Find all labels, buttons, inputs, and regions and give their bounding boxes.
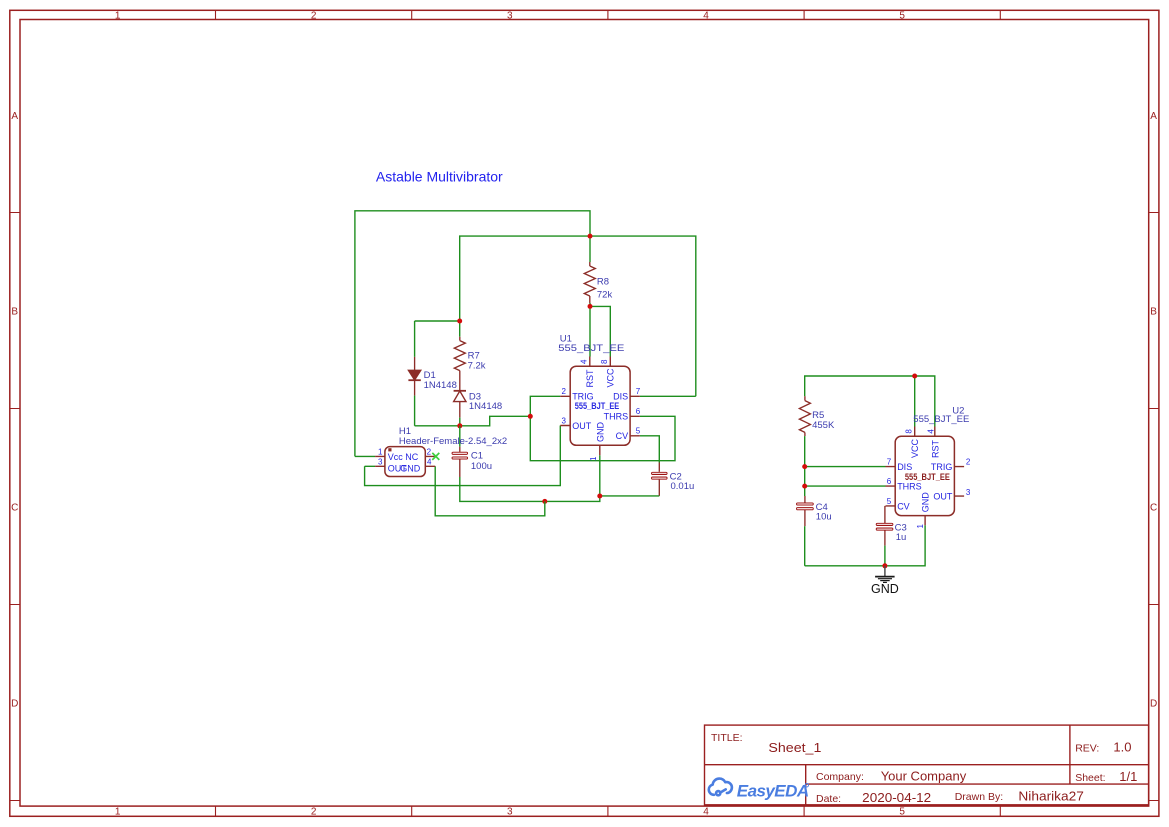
no-connect flag H1 pin2: [432, 453, 439, 460]
wire THRS U2: [805, 485, 886, 487]
wire CV to C2: [640, 436, 659, 463]
wire C1 top: [459, 426, 461, 447]
capacitor C1: [459, 447, 461, 477]
svg-text:0.01u: 0.01u: [671, 481, 695, 492]
svg-text:OUT: OUT: [572, 421, 592, 431]
svg-text:VCC: VCC: [606, 368, 616, 388]
svg-text:RST: RST: [585, 369, 595, 388]
svg-text:5: 5: [887, 497, 892, 506]
svg-text:1: 1: [378, 448, 383, 457]
svg-text:4: 4: [927, 429, 936, 434]
svg-text:8: 8: [904, 429, 913, 434]
svg-text:2: 2: [562, 387, 567, 396]
junction node R7 top: [457, 319, 462, 324]
svg-text:3: 3: [966, 488, 971, 497]
junction node B: [542, 499, 547, 504]
svg-text:GND: GND: [400, 464, 421, 474]
header H1: [375, 447, 435, 477]
svg-text:4: 4: [427, 458, 432, 467]
svg-text:CV: CV: [616, 431, 629, 441]
svg-text:3: 3: [378, 458, 383, 467]
wire DIS: [640, 395, 696, 397]
wire TRIG node: [530, 396, 675, 460]
ground GND symbol: [875, 566, 895, 583]
svg-text:555_BJT_EE: 555_BJT_EE: [913, 414, 969, 425]
svg-text:2: 2: [427, 448, 432, 457]
svg-text:1/1: 1/1: [1119, 769, 1137, 784]
svg-text:2: 2: [311, 807, 317, 818]
diode D1: [408, 357, 420, 396]
svg-text:6: 6: [887, 477, 892, 486]
svg-text:REV:: REV:: [1075, 743, 1099, 755]
svg-text:1u: 1u: [896, 532, 907, 543]
svg-text:Niharika27: Niharika27: [1018, 788, 1084, 803]
junction node U2 VCC: [912, 374, 917, 379]
svg-text:THRS: THRS: [897, 482, 922, 492]
svg-text:C1: C1: [471, 451, 483, 462]
svg-text:A: A: [1150, 111, 1157, 122]
svg-text:6: 6: [636, 407, 641, 416]
svg-text:1.0: 1.0: [1113, 740, 1131, 755]
resistor R5: [799, 396, 810, 436]
wire net second rail: [460, 236, 696, 396]
wire C2 bottom to GND node: [600, 495, 660, 497]
svg-text:1N4148: 1N4148: [469, 401, 502, 412]
svg-text:GND: GND: [871, 582, 899, 596]
svg-text:TITLE:: TITLE:: [711, 732, 743, 744]
svg-text:Company:: Company:: [816, 771, 864, 783]
svg-text:B: B: [1150, 307, 1157, 318]
svg-text:555_BJT_EE: 555_BJT_EE: [575, 401, 620, 411]
svg-text:7: 7: [887, 458, 892, 467]
svg-text:4: 4: [703, 807, 709, 818]
junction node THRS: [802, 484, 807, 489]
wire bottom rail right: [805, 525, 925, 566]
svg-text:RST: RST: [930, 439, 940, 458]
IC U2 555_BJT_EE: [886, 427, 965, 526]
svg-text:5: 5: [899, 807, 905, 818]
svg-text:8: 8: [600, 359, 609, 364]
svg-text:3: 3: [507, 807, 513, 818]
svg-text:Drawn By:: Drawn By:: [955, 791, 1003, 803]
svg-text:D: D: [11, 699, 18, 710]
svg-text:72k: 72k: [597, 290, 613, 301]
wire R7/D1 top branch: [415, 321, 460, 357]
wire C4 bottom: [804, 526, 806, 566]
svg-text:GND: GND: [921, 492, 931, 513]
wire H1 pin1: [355, 455, 375, 457]
wire D3 bottom node: [415, 416, 531, 426]
svg-text:10u: 10u: [816, 512, 832, 523]
capacitor C3: [884, 506, 886, 546]
resistor R7: [454, 337, 465, 390]
svg-text:5: 5: [636, 427, 641, 436]
svg-text:100u: 100u: [471, 461, 492, 472]
svg-text:7: 7: [636, 387, 641, 396]
svg-text:555_BJT_EE: 555_BJT_EE: [558, 343, 624, 354]
svg-text:2: 2: [311, 10, 317, 21]
svg-text:VCC: VCC: [910, 438, 920, 458]
H1 pin 1 polarity mark: [388, 448, 391, 451]
junction node DIS: [802, 464, 807, 469]
svg-text:4: 4: [703, 10, 709, 21]
svg-text:Header-Female-2.54_2x2: Header-Female-2.54_2x2: [399, 436, 507, 447]
svg-text:TRIG: TRIG: [931, 462, 953, 472]
svg-text:Astable Multivibrator: Astable Multivibrator: [376, 169, 503, 185]
svg-text:D: D: [1150, 699, 1157, 710]
svg-text:DIS: DIS: [897, 462, 912, 472]
junction node top rail: [588, 234, 593, 239]
capacitor C4: [804, 496, 806, 526]
svg-text:1: 1: [589, 456, 598, 461]
svg-text:A: A: [11, 111, 18, 122]
wire left rail down: [804, 436, 806, 496]
wire D1 bottom: [414, 396, 416, 426]
svg-text:THRS: THRS: [604, 412, 629, 422]
svg-text:CV: CV: [897, 501, 910, 511]
svg-text:Date:: Date:: [816, 793, 841, 805]
svg-text:C: C: [11, 503, 18, 514]
diode D3: [454, 391, 466, 418]
svg-text:455K: 455K: [812, 420, 835, 431]
svg-text:B: B: [11, 307, 18, 318]
svg-text:OUT: OUT: [933, 492, 953, 502]
svg-text:Sheet:: Sheet:: [1075, 772, 1105, 784]
svg-text:1: 1: [115, 807, 121, 818]
capacitor C2: [658, 463, 660, 496]
junction node A GND: [597, 494, 602, 499]
svg-text:1N4148: 1N4148: [424, 380, 457, 391]
wire H1 pin3 to U1 OUT: [365, 426, 561, 486]
op-amp/IC U1 555_BJT_EE: [560, 357, 640, 456]
svg-text:R8: R8: [597, 277, 609, 288]
svg-text:Vcc NC: Vcc NC: [388, 452, 419, 462]
svg-text:4: 4: [580, 359, 589, 364]
svg-text:5: 5: [899, 10, 905, 21]
svg-text:Sheet_1: Sheet_1: [768, 740, 821, 755]
wire VCC rail right: [805, 376, 935, 427]
wire C3 bottom: [884, 546, 886, 566]
svg-text:555_BJT_EE: 555_BJT_EE: [905, 472, 950, 482]
title block: [705, 725, 1149, 805]
svg-text:1: 1: [916, 524, 925, 529]
svg-text:7.2k: 7.2k: [468, 361, 486, 372]
wire R8 top lead: [589, 236, 591, 262]
wire DIS U2: [805, 466, 886, 468]
svg-text:2: 2: [966, 458, 971, 467]
junction node TRIG/THRS: [528, 414, 533, 419]
svg-text:2020-04-12: 2020-04-12: [862, 790, 931, 805]
svg-text:GND: GND: [595, 422, 605, 443]
resistor R8: [584, 262, 595, 303]
svg-text:3: 3: [562, 416, 567, 425]
svg-text:EasyEDA: EasyEDA: [737, 781, 809, 800]
wire R8 bottom to U1 RST/VCC: [590, 303, 610, 357]
svg-text:1: 1: [115, 10, 121, 21]
wire H1 pin4 to node B: [435, 466, 545, 516]
svg-text:C: C: [1150, 503, 1157, 514]
wire U1 GND pin node: [460, 455, 600, 501]
svg-text:3: 3: [507, 10, 513, 21]
EasyEDA logo: [709, 779, 732, 796]
junction node D3/C1: [457, 423, 462, 428]
wire net VCC top rail left: [355, 211, 590, 457]
junction node GND rail: [882, 563, 887, 568]
junction node below R8: [588, 304, 593, 309]
svg-text:Your Company: Your Company: [881, 768, 967, 783]
